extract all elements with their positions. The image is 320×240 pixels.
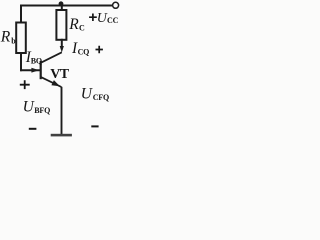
svg-text:BQ: BQ [31,56,42,65]
terminal +Ucc circle [113,2,119,8]
svg-text:CC: CC [107,16,119,25]
resistor Rb [16,23,26,54]
arrow emitter [51,80,60,86]
ground [51,134,72,137]
wire base horizontal [21,69,40,71]
svg-text:C: C [79,23,85,32]
svg-text:BFQ: BFQ [34,106,50,115]
svg-text:CFQ: CFQ [93,93,109,102]
transistor VT base bar [40,61,42,79]
wire left vertical to Rb [20,6,22,23]
label plus UBFQ [20,80,30,89]
svg-text:CQ: CQ [78,47,90,56]
wire collector vertical [61,40,63,48]
wire Rb bottom [20,53,22,70]
label plus UCFQ [96,46,103,54]
wire Rc top stub [61,6,63,11]
arrow ICQ [60,46,64,53]
transistor emitter lead [41,77,61,87]
svg-text:R: R [68,16,79,33]
wire top horizontal [21,5,112,7]
label +Ucc [89,14,97,22]
node junction dot [59,1,64,6]
resistor Rc [56,10,66,40]
svg-text:b: b [11,36,16,45]
arrow IBQ [31,68,39,73]
svg-text:R: R [0,29,11,46]
label minus UCFQ [91,125,98,127]
wire emitter vertical [61,87,63,134]
svg-text:VT: VT [50,67,70,82]
label minus UBFQ [29,128,37,130]
transistor collector lead [41,52,62,62]
